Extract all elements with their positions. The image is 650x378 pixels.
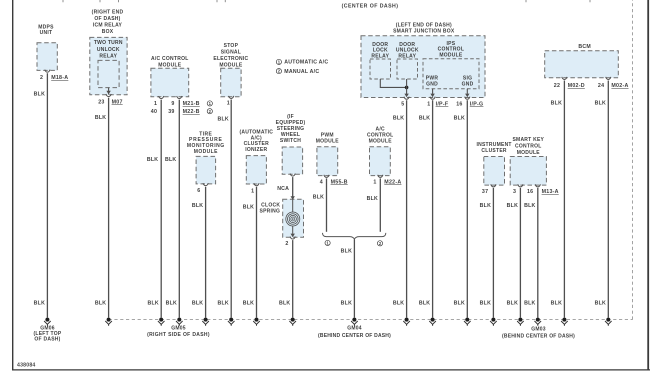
svg-text:M13-A: M13-A <box>542 189 559 195</box>
svg-text:GND: GND <box>426 81 438 87</box>
svg-text:M22-B: M22-B <box>183 109 200 115</box>
svg-text:BLK: BLK <box>217 116 228 122</box>
svg-text:IONIZER: IONIZER <box>245 147 267 153</box>
svg-text:BLK: BLK <box>367 196 378 202</box>
svg-text:BOX: BOX <box>102 29 114 35</box>
svg-text:16: 16 <box>456 101 462 107</box>
svg-text:1: 1 <box>427 101 430 107</box>
svg-text:BLK: BLK <box>341 301 352 307</box>
svg-text:GM03: GM03 <box>531 327 546 333</box>
svg-text:BLK: BLK <box>147 301 158 307</box>
svg-text:2: 2 <box>285 241 288 247</box>
svg-text:BLK: BLK <box>279 301 290 307</box>
svg-text:BLK: BLK <box>595 301 606 307</box>
svg-text:RELAY: RELAY <box>99 54 117 60</box>
svg-text:(BEHIND CENTER OF DASH): (BEHIND CENTER OF DASH) <box>502 333 575 339</box>
svg-text:4: 4 <box>320 179 323 185</box>
svg-text:1: 1 <box>154 101 157 107</box>
svg-text:438084: 438084 <box>17 362 36 368</box>
svg-text:BLK: BLK <box>243 301 254 307</box>
svg-text:BLK: BLK <box>95 115 106 121</box>
svg-text:6: 6 <box>197 188 200 194</box>
svg-text:BLK: BLK <box>313 195 324 201</box>
svg-text:BLK: BLK <box>524 203 535 209</box>
svg-text:TWO TURN: TWO TURN <box>94 40 123 46</box>
svg-text:2: 2 <box>40 75 43 81</box>
svg-text:(BEHIND CENTER OF DASH): (BEHIND CENTER OF DASH) <box>318 333 391 339</box>
svg-text:1: 1 <box>373 179 376 185</box>
svg-text:40: 40 <box>151 109 157 115</box>
svg-text:SMART KEY: SMART KEY <box>512 137 544 143</box>
svg-text:BLK: BLK <box>34 301 45 307</box>
svg-text:BLK: BLK <box>524 301 535 307</box>
svg-text:BLK: BLK <box>419 116 430 122</box>
svg-text:M18-A: M18-A <box>51 75 68 81</box>
svg-text:23: 23 <box>98 99 104 105</box>
svg-text:BLK: BLK <box>551 301 562 307</box>
svg-text:BLK: BLK <box>341 249 352 255</box>
svg-text:A/C CONTROL: A/C CONTROL <box>151 56 188 62</box>
svg-text:37: 37 <box>482 189 488 195</box>
svg-text:M02-A: M02-A <box>611 83 628 89</box>
svg-text:GM04: GM04 <box>347 325 362 331</box>
svg-text:I/P-G: I/P-G <box>470 101 484 107</box>
svg-text:BLK: BLK <box>217 301 228 307</box>
svg-text:CONTROL: CONTROL <box>515 144 541 150</box>
svg-text:BLK: BLK <box>595 100 606 106</box>
svg-text:SWITCH: SWITCH <box>280 138 301 144</box>
svg-text:M22-A: M22-A <box>384 179 401 185</box>
svg-text:CLUSTER: CLUSTER <box>481 148 507 154</box>
svg-text:SPRING: SPRING <box>260 209 281 215</box>
svg-text:UNIT: UNIT <box>40 30 53 36</box>
svg-text:OF DASH): OF DASH) <box>94 16 120 22</box>
svg-text:MODULE: MODULE <box>219 62 243 68</box>
svg-text:(IF: (IF <box>287 114 294 120</box>
svg-text:BLK: BLK <box>192 203 203 209</box>
svg-text:BLK: BLK <box>454 116 465 122</box>
svg-text:INSTRUMENT: INSTRUMENT <box>476 142 511 148</box>
svg-text:M55-B: M55-B <box>331 179 348 185</box>
svg-text:BLK: BLK <box>393 301 404 307</box>
svg-text:RELAY: RELAY <box>398 53 416 59</box>
svg-text:3: 3 <box>513 189 516 195</box>
svg-text:BLK: BLK <box>480 301 491 307</box>
svg-text:PRESSURE: PRESSURE <box>189 137 223 143</box>
svg-text:16: 16 <box>527 189 533 195</box>
svg-text:BLK: BLK <box>166 301 177 307</box>
svg-text:39: 39 <box>168 109 174 115</box>
svg-text:MODULE: MODULE <box>194 149 218 155</box>
svg-text:BLK: BLK <box>34 91 45 97</box>
svg-text:OF DASH): OF DASH) <box>34 337 60 343</box>
svg-text:MODULE: MODULE <box>158 63 182 69</box>
svg-text:9: 9 <box>171 101 174 107</box>
svg-text:BLK: BLK <box>243 204 254 210</box>
svg-text:BLK: BLK <box>480 203 491 209</box>
svg-text:AUTOMATIC A/C: AUTOMATIC A/C <box>284 60 328 66</box>
svg-text:BCM: BCM <box>578 44 591 50</box>
svg-text:(RIGHT SIDE OF DASH): (RIGHT SIDE OF DASH) <box>147 332 210 338</box>
svg-text:ELECTRONIC: ELECTRONIC <box>213 56 248 62</box>
svg-text:MANUAL A/C: MANUAL A/C <box>284 69 319 75</box>
svg-text:BLK: BLK <box>551 100 562 106</box>
svg-text:5: 5 <box>401 101 404 107</box>
svg-text:(CENTER OF DASH): (CENTER OF DASH) <box>342 4 399 10</box>
svg-text:GM05: GM05 <box>171 326 186 332</box>
svg-text:SIGNAL: SIGNAL <box>221 50 241 56</box>
svg-text:1: 1 <box>251 188 254 194</box>
svg-text:22: 22 <box>554 83 560 89</box>
svg-text:STOP: STOP <box>224 43 239 49</box>
svg-text:ICM RELAY: ICM RELAY <box>93 23 123 29</box>
svg-text:BLK: BLK <box>419 301 430 307</box>
svg-text:MODULE: MODULE <box>369 139 393 145</box>
svg-text:BLK: BLK <box>95 301 106 307</box>
svg-text:RELAY: RELAY <box>371 53 389 59</box>
svg-text:CLOCK: CLOCK <box>261 202 280 208</box>
svg-text:GND: GND <box>462 81 474 87</box>
svg-text:BLK: BLK <box>507 203 518 209</box>
svg-text:UNLOCK: UNLOCK <box>97 47 120 53</box>
svg-text:M02-D: M02-D <box>568 83 585 89</box>
svg-text:MODULE: MODULE <box>517 150 541 156</box>
svg-text:BLK: BLK <box>393 116 404 122</box>
svg-text:1: 1 <box>227 101 230 107</box>
svg-text:I/P-F: I/P-F <box>436 101 449 107</box>
svg-text:BLK: BLK <box>507 301 518 307</box>
svg-text:MODULE: MODULE <box>439 52 463 58</box>
svg-text:BLK: BLK <box>147 157 158 163</box>
svg-text:M07: M07 <box>112 99 123 105</box>
svg-text:BLK: BLK <box>192 301 203 307</box>
svg-text:M21-B: M21-B <box>183 101 200 107</box>
svg-text:24: 24 <box>598 83 604 89</box>
svg-text:MODULE: MODULE <box>316 138 340 144</box>
svg-text:SMART JUNCTION BOX: SMART JUNCTION BOX <box>393 28 455 34</box>
svg-text:BLK: BLK <box>165 157 176 163</box>
svg-text:NCA: NCA <box>277 186 289 192</box>
svg-text:BLK: BLK <box>454 301 465 307</box>
svg-text:(RIGHT END: (RIGHT END <box>92 10 124 16</box>
